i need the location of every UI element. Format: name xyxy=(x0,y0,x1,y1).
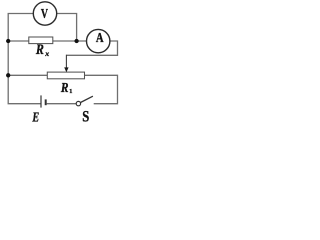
svg-text:R: R xyxy=(60,80,68,95)
wire: rheostat slider stem xyxy=(65,55,67,68)
svg-text:A: A xyxy=(96,30,104,45)
node: left upper junction xyxy=(6,39,10,43)
svg-text:V: V xyxy=(41,6,48,21)
resistor Rx box xyxy=(29,37,53,44)
rheostat slider arrowhead xyxy=(64,67,68,72)
node: voltmeter branch junction xyxy=(74,39,78,43)
svg-text:R: R xyxy=(35,42,44,58)
wire: R1 right, down right edge, bottom to switch xyxy=(85,75,118,103)
wire: ammeter right, down, middle row, slider stem xyxy=(66,41,117,55)
switch S pivot circle xyxy=(76,101,80,105)
wire: battery to switch circle xyxy=(47,103,77,105)
svg-text:x: x xyxy=(44,49,49,58)
switch S blade xyxy=(81,96,93,102)
rheostat R1 box xyxy=(47,72,84,79)
wire: left node to Rx xyxy=(8,40,29,42)
wire: top-left run, left vertical, bottom-left run xyxy=(8,14,40,104)
voltmeter V circle xyxy=(33,2,56,25)
wire: voltmeter right to corner then down to node xyxy=(57,14,77,42)
ammeter A circle xyxy=(87,29,110,52)
svg-text:E: E xyxy=(32,109,40,123)
wire: left node to R1 xyxy=(8,74,47,76)
battery E short plate xyxy=(45,99,47,105)
svg-text:1: 1 xyxy=(69,88,72,95)
svg-text:S: S xyxy=(82,108,89,123)
battery E long plate xyxy=(40,95,42,107)
node: left lower junction xyxy=(6,73,10,77)
wire: Rx to ammeter xyxy=(53,40,87,42)
